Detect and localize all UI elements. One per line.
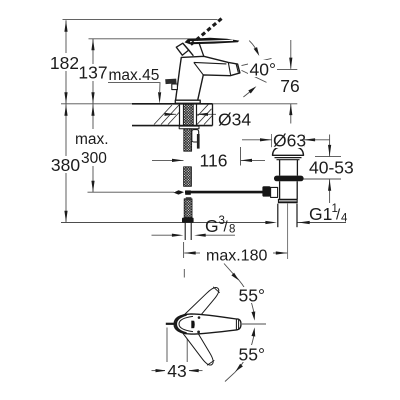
label 43 (165, 362, 189, 379)
wire: 380 bottom ref line y=222.5 (61, 222, 267, 224)
phantom lever upper (183, 284, 223, 325)
phantom lever lower (182, 324, 218, 368)
arrow G38 right (194, 234, 206, 237)
pop-up rod horizontal (185, 191, 263, 194)
arrow dia34 left (165, 113, 177, 116)
svg-text:137: 137 (78, 63, 107, 83)
arrow 182 bottom (64, 92, 67, 104)
arrow 137 bottom (91, 92, 94, 104)
40 degree spread lines from aerator (242, 58, 272, 65)
label 380 (52, 156, 80, 173)
svg-text:182: 182 (50, 53, 79, 73)
arrow g114 pipe left (265, 221, 277, 224)
arrow 55 lower near (251, 327, 256, 336)
rod tick (166, 323, 175, 325)
flex hose band 1 (threaded shank continues) (184, 129, 192, 151)
55 arc tangent extensions (224, 264, 236, 278)
wire: 116 dim line (152, 159, 184, 161)
drain body (279, 181, 281, 199)
lever dots (191, 321, 194, 329)
svg-text:Ø63: Ø63 (273, 131, 306, 151)
wire: max300 bottom ref line y=192 (88, 191, 175, 193)
wire: deck reference plane line (61, 103, 297, 105)
wire: extension line spout top level (89, 38, 197, 40)
svg-text:40°: 40° (250, 60, 276, 80)
wire: dim vertical x=66 (182 / 380) (65, 20, 67, 222)
arrow 116 right (241, 159, 253, 162)
solid lever top view (174, 314, 241, 334)
svg-text:300: 300 (81, 150, 107, 167)
label 116 (198, 151, 229, 169)
arrow 40deg lower arc (248, 85, 257, 94)
wire: 76 dim vertical + ext line (290, 40, 292, 69)
label 40-53 (308, 158, 352, 176)
arrow 55 upper far (231, 273, 240, 282)
wire: G 1 1/4 underline (297, 222, 346, 224)
label 55deg upper (238, 287, 265, 303)
svg-text:55°: 55° (239, 345, 265, 365)
arrow max300 bottom (91, 181, 94, 193)
base plinth (175, 100, 200, 103)
svg-text:max.45: max.45 (109, 67, 160, 84)
arrow dia34 right (197, 113, 209, 116)
label dia 63 (272, 131, 304, 148)
G3/8 threads (184, 223, 186, 240)
arrow max180 left (184, 251, 196, 254)
lever blade (solid) (185, 38, 240, 44)
threaded shank in deck (183, 104, 193, 125)
drain: dome cap (273, 146, 304, 155)
svg-text:max.: max. (75, 131, 109, 148)
arrow 116 left (172, 159, 184, 162)
arrow 380 bottom (64, 211, 67, 223)
flex hose band 2 (184, 167, 192, 187)
svg-text:8: 8 (229, 224, 235, 236)
wire: dim vertical x=93 (137 / max300) (92, 39, 94, 192)
svg-text:G1: G1 (309, 204, 332, 224)
svg-text:76: 76 (280, 76, 299, 96)
label max. 300 (74, 129, 109, 166)
lever inner arc (179, 316, 193, 331)
svg-text:G: G (205, 216, 219, 236)
hose end nut (dark) (182, 218, 194, 223)
40 degree arc arrows (249, 41, 258, 54)
arrow G38 left (172, 234, 184, 237)
arrow G114 (298, 221, 310, 224)
arrow 182 top (64, 20, 67, 32)
handle boss (176, 43, 189, 55)
rod guide bracket (192, 130, 199, 142)
drain bottom nut (278, 199, 298, 204)
arrow dia63 right (304, 138, 316, 141)
label dia 34 (216, 110, 254, 127)
arrow 40deg upper arc (254, 47, 261, 57)
label 40deg (248, 60, 277, 77)
svg-text:40-53: 40-53 (309, 158, 354, 178)
arrow 76 bottom (289, 104, 292, 116)
pop-up rod knob on body (165, 79, 176, 85)
arrow 380 top (64, 104, 67, 116)
wire: faucet axis extension line (183, 242, 185, 258)
drain o-ring (274, 176, 304, 182)
55 degree arcs (r=70 about hub) (235, 276, 255, 316)
deck hatching (154, 104, 212, 124)
arrow 55 upper near (251, 311, 256, 320)
lever raised (dashed) (191, 17, 224, 45)
label max.180 (204, 245, 272, 262)
svg-text:55°: 55° (239, 286, 265, 306)
arrow 55 lower far (234, 364, 243, 373)
svg-text:Ø34: Ø34 (218, 110, 251, 130)
faucet body (176, 56, 240, 100)
drain neck (279, 160, 281, 176)
wire: 43 dim extension lines (166, 328, 168, 375)
wire: max45 underline + drop (108, 83, 160, 92)
wire: Ø63 leaders and stubs (242, 139, 272, 141)
arrow 76 top (289, 58, 292, 70)
arrow 40-53 bottom (328, 179, 331, 191)
arrow 40-53 top (328, 145, 331, 157)
label 182 (49, 53, 80, 71)
label 76 (278, 76, 302, 94)
svg-text:max.180: max.180 (206, 248, 267, 265)
label 137 (78, 64, 109, 81)
arrow 43 left (156, 369, 168, 372)
wire: 40-53 dim verticals + ext lines (329, 135, 331, 157)
tailpipe (277, 204, 279, 228)
label 55deg lower (237, 345, 265, 362)
wire: Ø34 leader (197, 113, 217, 115)
wire: max180 dim line + drain centerline ext (184, 252, 200, 254)
arrow 43 right (187, 369, 199, 372)
mounting washer plate (179, 126, 199, 129)
body internal lines (194, 62, 239, 75)
deck slab (132, 103, 213, 105)
wire: bottom-view horizontal centerline (242, 323, 266, 325)
svg-text:4: 4 (341, 213, 348, 225)
arrow max180 right (276, 251, 288, 254)
arrow max300 top (91, 104, 94, 116)
rod junction fittings (174, 190, 185, 194)
wire: G 3/8 underline + left tail (205, 234, 236, 236)
arrow max45 (158, 92, 161, 104)
svg-text:43: 43 (167, 361, 186, 381)
wire: 116 extension at aerator x=240.5 (240, 147, 242, 166)
svg-text:380: 380 (51, 155, 80, 175)
flex hose band 3 (184, 199, 192, 218)
arrow 137 top (91, 39, 94, 51)
arrow dia63 left (260, 138, 272, 141)
wire: extension line top of lever (63, 19, 218, 21)
svg-text:116: 116 (200, 151, 228, 171)
rod knob at drain (262, 186, 270, 196)
